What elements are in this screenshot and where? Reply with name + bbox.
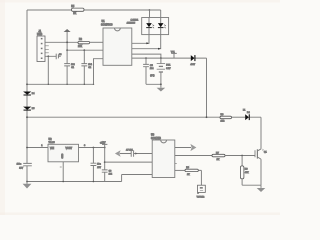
resistor R8 — [240, 156, 249, 186]
resistor R5 — [71, 5, 84, 15]
wire U2 GND down — [62, 162, 64, 182]
svg-text:TY5012: TY5012 — [197, 196, 205, 198]
svg-text:VIN: VIN — [50, 147, 54, 150]
node C1 tap — [66, 49, 68, 51]
wire top rail — [27, 9, 150, 11]
pin2 tick — [60, 166, 62, 168]
wire U1 pin3 left — [94, 59, 104, 85]
wire J1 pin1 to R2 — [45, 41, 78, 43]
wire bus step to U3 — [122, 175, 153, 182]
node BT1 tap — [160, 57, 162, 59]
resistor R9 — [185, 167, 198, 176]
capacitor C3 — [45, 54, 61, 60]
wire D1 to right rail — [196, 58, 207, 117]
svg-text:16V: 16V — [19, 168, 23, 170]
node battery gnd — [160, 83, 162, 85]
wire U1 pin to battery — [132, 54, 161, 58]
power flag VCC — [64, 29, 71, 50]
wire bus y117 — [27, 116, 220, 118]
ground left rail — [26, 182, 28, 184]
wire LED1 to U1 — [132, 35, 149, 44]
diode D1 — [190, 55, 195, 66]
node LED feed junction — [149, 9, 151, 11]
node flag tap — [104, 147, 106, 149]
LED label — [129, 20, 140, 25]
wire U1 pin4 long — [132, 57, 191, 59]
arrow tick LED2 — [158, 48, 161, 50]
ground battery — [157, 88, 166, 92]
wire R6 to D4 — [232, 116, 246, 118]
resistor R7 — [212, 152, 225, 161]
svg-text:C3: C3 — [59, 54, 61, 56]
svg-text:3.7V: 3.7V — [166, 68, 171, 70]
IC U3 — [151, 134, 175, 178]
svg-text:VOUT: VOUT — [66, 147, 73, 150]
svg-text:(3.7): (3.7) — [150, 75, 154, 77]
wire U3 to R9 — [175, 169, 185, 171]
diode D3 — [23, 107, 35, 111]
LED DS2 — [158, 18, 166, 35]
power flag VT1 — [171, 52, 177, 59]
transistor Q1 — [255, 149, 268, 185]
battery BT1 — [157, 58, 171, 84]
svg-text:SC61F3C0: SC61F3C0 — [101, 25, 113, 27]
U3 stub pin — [175, 163, 177, 165]
port arrow right — [175, 144, 197, 151]
resistor R2 — [78, 39, 90, 48]
svg-text:78L05: 78L05 — [49, 142, 56, 144]
wire battery gnd — [146, 84, 161, 87]
regulator U2 — [48, 138, 79, 162]
wire gnd bus y84 — [27, 83, 94, 85]
node taps bus84 — [48, 84, 49, 85]
node C4 tap — [145, 57, 147, 59]
node rail bus84 — [26, 83, 28, 85]
svg-text:RG505: RG505 — [129, 22, 136, 24]
wire LED2 to U1 — [132, 35, 161, 49]
connector J1 — [37, 30, 49, 62]
wire R8 to Q1 source — [242, 184, 261, 186]
wire rail to VIN — [27, 147, 48, 149]
node C7 tap — [93, 147, 95, 149]
svg-text:SC6171B: SC6171B — [151, 138, 161, 140]
resistor R6 — [220, 114, 232, 122]
capacitor C8 — [102, 148, 113, 182]
LED box — [142, 18, 169, 35]
node C2 tap — [83, 49, 85, 51]
capacitor C4 — [143, 58, 155, 84]
power flag +12V — [100, 142, 107, 147]
wire D4 to Q1 drain — [250, 117, 261, 149]
wire U1 pin2 — [67, 49, 103, 51]
wire U3 to R7 — [175, 155, 212, 157]
wire R7 to Q1 gate — [225, 155, 255, 157]
capacitor C9 series — [126, 149, 152, 156]
svg-text:LED1: LED1 — [133, 20, 139, 22]
node flag-pin1 — [66, 41, 68, 43]
wire LED feeds — [150, 10, 161, 18]
capacitor C7 — [91, 148, 102, 182]
diode D2 — [23, 92, 35, 96]
IC U1 — [101, 20, 135, 66]
node rail bus117 — [26, 116, 28, 118]
svg-text:+12V: +12V — [100, 142, 106, 144]
wire left rail — [26, 10, 28, 184]
wire J1 pin5 drop — [47, 56, 49, 84]
capacitor C2 — [81, 50, 92, 84]
wire R9 to mic — [198, 170, 201, 185]
node C8 pin tap — [104, 161, 106, 163]
port arrow left — [115, 150, 131, 157]
svg-text:4.7 104: 4.7 104 — [126, 149, 134, 151]
node right rail junction — [206, 116, 208, 118]
arrow tick LED1 — [146, 42, 149, 44]
wire gnd bus y181 — [27, 181, 122, 183]
capacitor C1 — [64, 50, 75, 84]
wire R2 to U1 — [90, 41, 104, 43]
diode D4 — [243, 109, 250, 120]
svg-text:10K: 10K — [78, 46, 83, 48]
wire VOUT — [79, 147, 105, 149]
capacitor C6 inline — [17, 163, 32, 169]
svg-text:GND: GND — [62, 153, 64, 158]
microphone MK1 — [197, 185, 206, 198]
LED DS1 — [146, 18, 154, 35]
ground right — [260, 185, 262, 188]
wire U3 pin2 — [105, 161, 153, 163]
svg-text:USB: USB — [37, 33, 42, 36]
svg-text:1K: 1K — [73, 12, 76, 15]
node R8 tap — [241, 155, 243, 157]
